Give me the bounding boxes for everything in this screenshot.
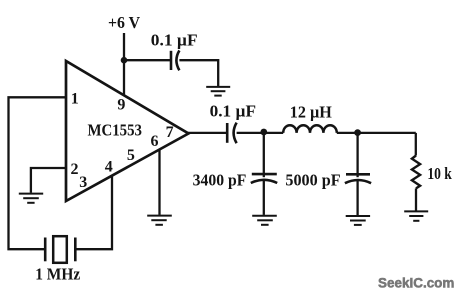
svg-text:1: 1 bbox=[71, 90, 79, 107]
wire: C4 to ground bbox=[356, 180, 358, 215]
inductor L1 humps bbox=[283, 125, 337, 133]
svg-text:12 µH: 12 µH bbox=[290, 102, 332, 121]
op-amp U1 MC1553 triangle bbox=[66, 61, 189, 201]
svg-text:1 MHz: 1 MHz bbox=[35, 264, 80, 283]
capacitor C1 plates bbox=[170, 51, 173, 70]
node B junction dot bbox=[354, 129, 361, 136]
svg-text:SeekIC.com: SeekIC.com bbox=[378, 275, 454, 291]
wire: C3 to ground bbox=[263, 180, 265, 215]
svg-text:4: 4 bbox=[105, 159, 113, 176]
svg-text:5000 pF: 5000 pF bbox=[285, 171, 340, 190]
node: junction dot on supply stem bbox=[121, 57, 128, 64]
wire: node A down to C3 bbox=[263, 132, 265, 177]
svg-text:2: 2 bbox=[71, 161, 79, 178]
wire: pin 2 to ground bbox=[31, 168, 66, 193]
ground (C3) bbox=[252, 216, 277, 225]
capacitor C3 plates bbox=[252, 173, 277, 176]
ground (bypass cap) bbox=[206, 87, 230, 96]
wire: node B to resistor corner bbox=[415, 133, 417, 156]
wire: junction to bypass cap bbox=[124, 59, 171, 61]
svg-text:9: 9 bbox=[117, 97, 125, 114]
svg-text:0.1 µF: 0.1 µF bbox=[210, 102, 256, 121]
resistor R1 zigzag bbox=[412, 156, 420, 189]
wire: output pin 7 to coupling cap bbox=[188, 132, 228, 134]
svg-text:3400 pF: 3400 pF bbox=[193, 171, 247, 190]
ground (pin 2) bbox=[19, 194, 43, 203]
wire: cap to node A bbox=[237, 132, 284, 134]
wire: crystal to pin 4 bbox=[75, 176, 112, 250]
svg-text:6: 6 bbox=[151, 133, 159, 150]
svg-text:7: 7 bbox=[166, 124, 174, 141]
wire: resistor to ground bbox=[415, 188, 417, 210]
ground (pin 6) bbox=[147, 216, 172, 225]
capacitor C2 plates bbox=[226, 123, 229, 143]
ground (R1) bbox=[404, 211, 428, 220]
node A junction dot bbox=[260, 129, 267, 136]
svg-text:0.1 µF: 0.1 µF bbox=[151, 30, 198, 49]
wire: pin 6 to ground bbox=[158, 150, 160, 215]
svg-text:+6 V: +6 V bbox=[108, 13, 140, 32]
svg-text:5: 5 bbox=[127, 147, 135, 164]
wire: pin 1 feedback to left rail bbox=[9, 97, 67, 249]
ground (C4) bbox=[346, 216, 370, 225]
wire: inductor to node B bbox=[337, 132, 416, 134]
svg-text:10 k: 10 k bbox=[427, 164, 452, 183]
svg-text:MC1553: MC1553 bbox=[87, 121, 142, 140]
capacitor C4 plates bbox=[346, 173, 370, 176]
wire: node B down to C4 bbox=[356, 133, 358, 178]
wire: +6V stem down to pin 9 bbox=[123, 33, 125, 96]
svg-text:3: 3 bbox=[79, 174, 87, 191]
wire: cap to ground corner bbox=[179, 60, 218, 86]
crystal Y1 1 MHz bbox=[44, 238, 47, 262]
